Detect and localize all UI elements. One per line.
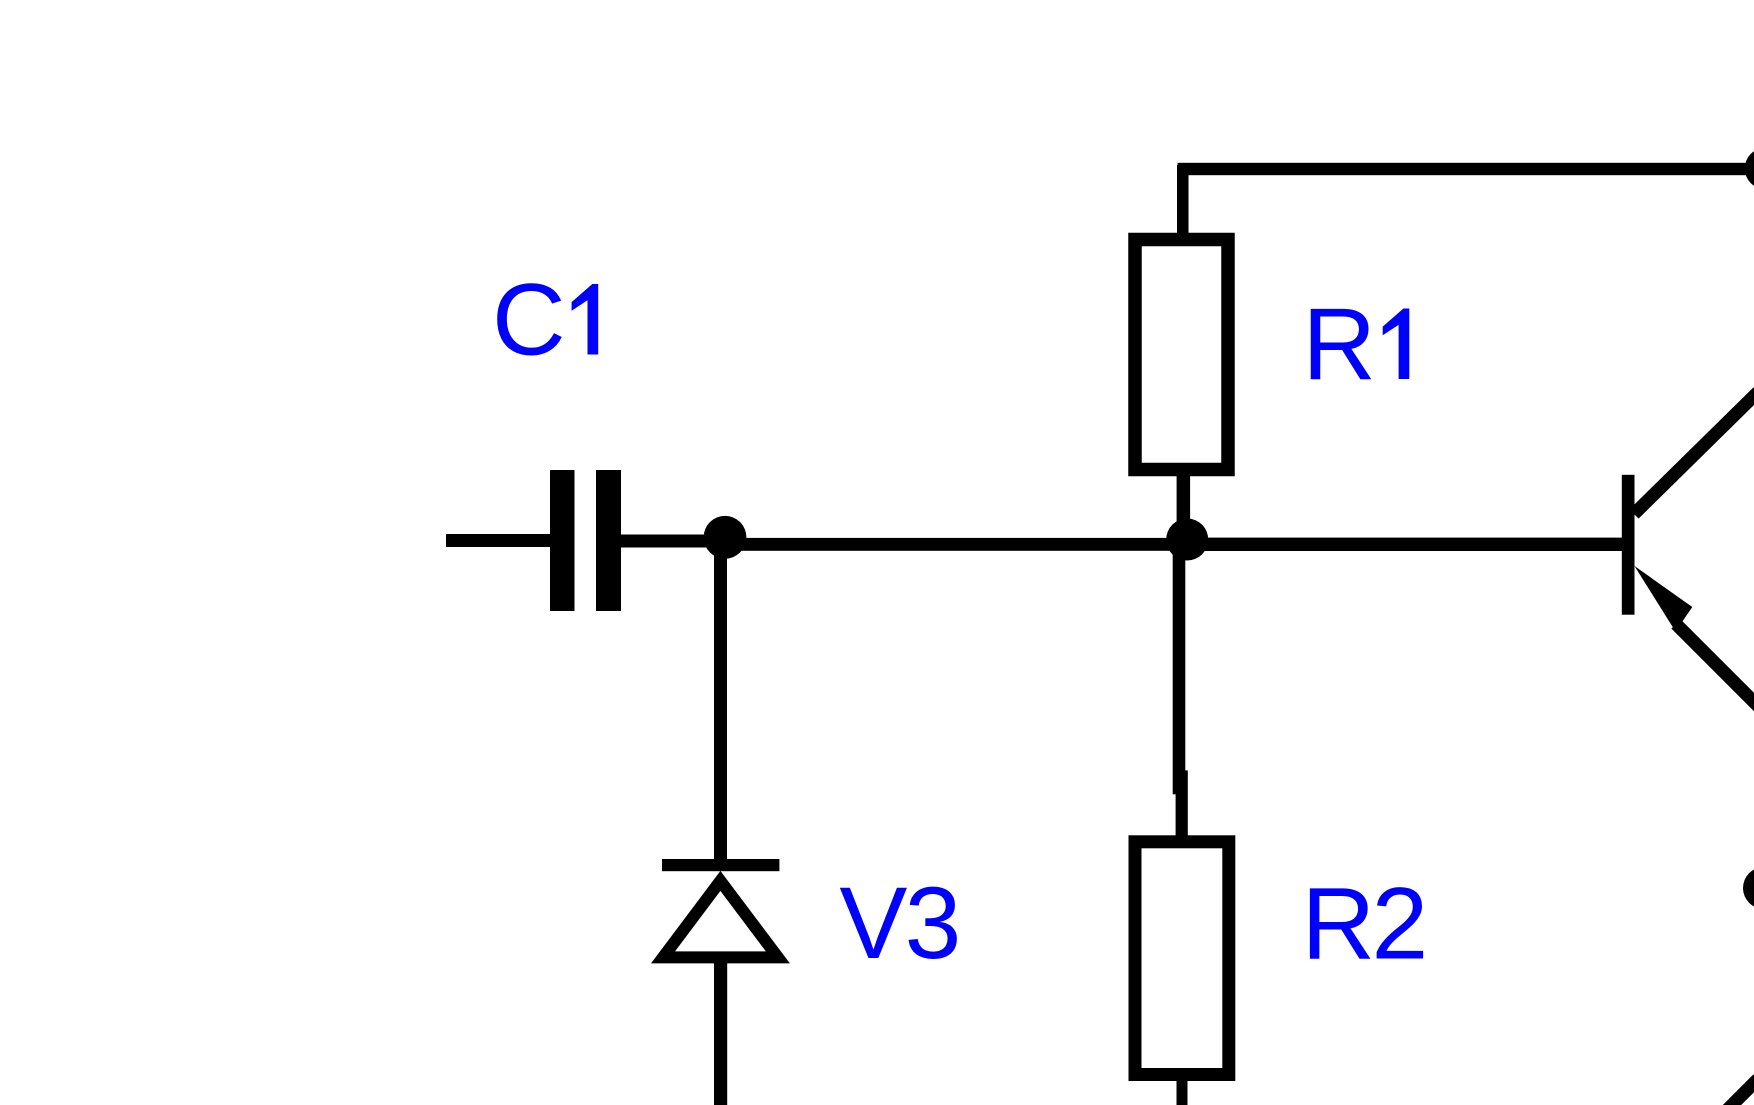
diode V3 cathode bar: [662, 859, 779, 871]
transistor Q1 emitter arrowhead: [1635, 566, 1693, 632]
transistor Q1 collector line: [1634, 392, 1754, 514]
transistor Q1 emitter line: [1676, 624, 1754, 708]
wire R2 bottom lead: [1177, 1081, 1188, 1105]
wire input left lead: [446, 534, 554, 547]
node A junction dot: [704, 516, 747, 559]
wire R1 bottom lead: [1177, 470, 1191, 530]
wire node A down to diode V3: [714, 537, 727, 859]
wire node A to node B: [720, 538, 1187, 551]
wire capacitor to node A: [621, 535, 721, 548]
wire top rail: [1178, 163, 1754, 175]
wire node B down lower segment: [1176, 770, 1188, 835]
resistor R1: [1135, 240, 1228, 470]
svg-text:R: R: [1302, 287, 1376, 401]
svg-text:V: V: [839, 866, 907, 980]
svg-text:3: 3: [905, 866, 962, 980]
right edge junction dot: [1743, 867, 1754, 909]
node B junction dot: [1166, 519, 1208, 561]
resistor R2: [1135, 842, 1229, 1075]
bottom-right diagonal wire: [1722, 1079, 1754, 1105]
top-right terminal dot: [1745, 148, 1754, 189]
capacitor C1 right plate: [596, 470, 621, 611]
transistor Q1 base bar: [1622, 475, 1635, 615]
wire node B to transistor base: [1187, 538, 1622, 551]
svg-text:2: 2: [1372, 867, 1429, 981]
svg-text:C: C: [492, 263, 566, 377]
wire diode V3 down: [714, 963, 727, 1105]
svg-text:R: R: [1302, 867, 1376, 981]
capacitor C1 left plate: [550, 470, 575, 611]
wire node B down upper segment: [1173, 539, 1186, 794]
diode V3 triangle: [663, 881, 778, 958]
wire R1 top lead: [1177, 165, 1189, 235]
